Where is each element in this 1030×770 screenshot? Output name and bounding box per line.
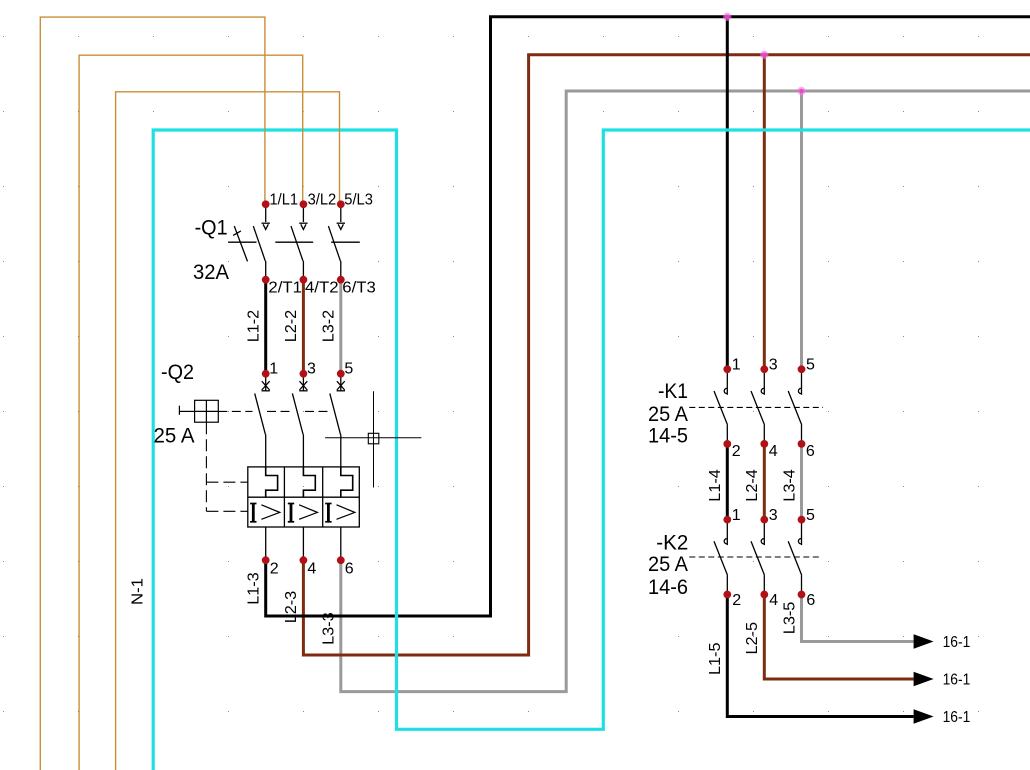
svg-text:5: 5 (806, 357, 815, 374)
svg-text:2: 2 (732, 443, 741, 460)
node K terminal dot row 4 pole 3 (798, 591, 806, 599)
svg-text:25 A: 25 A (648, 552, 689, 576)
svg-text:-K1: -K1 (658, 379, 688, 403)
svg-text:6: 6 (806, 443, 815, 460)
node Q terminal dot row 1 pole 3 (337, 200, 345, 208)
Q2 I> overcurrent trip symbol pole 2 (288, 504, 318, 522)
wire L1-2 black between Q1 and Q2 (264, 280, 267, 374)
contactor K1 pole 3 contact (788, 369, 802, 444)
svg-text:4: 4 (769, 592, 778, 609)
wire L1 black bus top-right to Q2 output loop (266, 17, 1030, 616)
wire N-1 cyan neutral meander (153, 130, 1030, 770)
svg-text:5: 5 (806, 507, 815, 524)
arrow to 16-1 at y=641.5 (914, 634, 934, 649)
Q2 pole 3 output lead (340, 527, 342, 560)
K2 dashed linkage (689, 556, 821, 558)
svg-text:L2-3: L2-3 (283, 591, 300, 624)
wire L2 brown bus top-right to Q2 output loop (303, 55, 1030, 655)
wire L3-4 gray between K1 and K2 (800, 444, 803, 520)
arrow to 16-1 at y=679 (914, 672, 934, 687)
svg-text:-K2: -K2 (656, 530, 688, 554)
Q2 actuator dashed link to poles (218, 410, 328, 412)
svg-text:L3-3: L3-3 (321, 612, 338, 645)
svg-text:2: 2 (270, 561, 279, 578)
node K terminal dot row 1 pole 3 (798, 365, 806, 373)
svg-text:N-1: N-1 (130, 578, 147, 605)
svg-text:L2-2: L2-2 (283, 310, 300, 343)
breaker Q1 latch bar segment 2 (275, 241, 313, 243)
wire L2-5 brown from K2 to arrow 16-1 (764, 595, 913, 680)
svg-text:32A: 32A (193, 260, 230, 284)
node Q terminal dot row 4 pole 3 (337, 556, 345, 564)
wire L1-4 black between K1 and K2 (726, 444, 729, 520)
svg-text:3/L2: 3/L2 (308, 192, 337, 209)
wire brown drop to contactor K1 (763, 55, 766, 370)
wire orange feeder 2 to Q1 pin 3/L2 (79, 55, 303, 770)
contactor K1 pole 1 contact (714, 369, 728, 444)
svg-text:1: 1 (732, 357, 741, 374)
svg-text:14-5: 14-5 (648, 423, 688, 447)
wire L3-2 gray between Q1 and Q2 (339, 280, 342, 374)
node bus T-junction magenta dot 1 (723, 13, 731, 21)
svg-text:2/T1: 2/T1 (268, 280, 302, 297)
switch Q2 pole 2 contact with breaker X mark (292, 374, 307, 467)
switch Q2 pole 1 contact with breaker X mark (255, 374, 270, 467)
node K terminal dot row 3 pole 2 (760, 516, 768, 524)
svg-text:5/L3: 5/L3 (344, 192, 373, 209)
svg-text:2: 2 (732, 592, 741, 609)
node Q terminal dot row 1 pole 1 (262, 200, 270, 208)
node Q terminal dot row 2 pole 2 (300, 276, 308, 284)
svg-text:L3-5: L3-5 (781, 602, 798, 635)
svg-text:L1-5: L1-5 (707, 642, 724, 675)
node Q terminal dot row 4 pole 2 (300, 556, 308, 564)
node Q terminal dot row 2 pole 1 (262, 276, 270, 284)
node K terminal dot row 4 pole 1 (723, 591, 731, 599)
svg-text:-Q2: -Q2 (161, 360, 194, 384)
breaker Q1 pole 3 contact (328, 204, 345, 279)
Q2 pole 1 output lead (265, 527, 267, 560)
svg-text:25 A: 25 A (154, 423, 196, 447)
Q2 thermal element pole 1 (266, 467, 278, 497)
svg-text:L1-2: L1-2 (245, 310, 262, 343)
Q2 overload relay box (248, 467, 359, 527)
breaker Q1 latch bar segment 3 (331, 241, 360, 243)
Q2 actuator dashed link down to overload (206, 422, 247, 511)
breaker Q1 latch bar segment 1 (228, 241, 256, 243)
contactor K2 pole 1 contact (714, 520, 728, 595)
wire black drop to contactor K1 (node at magenta junction) (726, 17, 729, 370)
wire L3-5 gray from K2 to arrow 16-1 (802, 595, 914, 642)
svg-text:4: 4 (769, 443, 778, 460)
breaker Q1 pole 1 contact (253, 204, 270, 279)
node Q terminal dot row 3 pole 3 (337, 370, 345, 378)
Q2 thermal element pole 3 (341, 467, 353, 497)
svg-text:L2-4: L2-4 (744, 469, 761, 502)
node K terminal dot row 1 pole 2 (760, 365, 768, 373)
node K terminal dot row 2 pole 1 (723, 440, 731, 448)
Q2 actuator box (square with cross) (179, 400, 218, 422)
insertion-point crosshair marker (325, 391, 421, 487)
node K terminal dot row 2 pole 3 (798, 440, 806, 448)
Q2 thermal element pole 2 (303, 467, 315, 497)
breaker Q1 actuator linkage diagonal with cross (233, 226, 247, 261)
svg-text:3: 3 (769, 507, 778, 524)
svg-text:16-1: 16-1 (943, 671, 971, 688)
node Q terminal dot row 3 pole 1 (262, 370, 270, 378)
node K terminal dot row 3 pole 3 (798, 516, 806, 524)
svg-text:16-1: 16-1 (943, 634, 971, 651)
svg-text:1: 1 (269, 360, 278, 377)
node K terminal dot row 3 pole 1 (723, 516, 731, 524)
Q2 I> overcurrent trip symbol pole 1 (250, 504, 280, 522)
wire L2-4 brown between K1 and K2 (763, 444, 766, 520)
wire L1-5 black from K2 to arrow 16-1 (727, 595, 913, 717)
svg-text:25 A: 25 A (648, 402, 689, 426)
svg-text:5: 5 (344, 360, 353, 377)
svg-text:4/T2: 4/T2 (305, 280, 339, 297)
wire gray drop to contactor K1 (800, 91, 803, 369)
svg-text:L3-4: L3-4 (781, 469, 798, 502)
svg-text:6/T3: 6/T3 (342, 280, 376, 297)
contactor K2 pole 2 contact (751, 520, 765, 595)
svg-text:3: 3 (307, 360, 316, 377)
svg-text:L1-3: L1-3 (245, 572, 262, 605)
arrow to 16-1 at y=716.5 (914, 709, 934, 724)
node Q terminal dot row 1 pole 2 (300, 200, 308, 208)
node K terminal dot row 1 pole 1 (723, 365, 731, 373)
svg-text:4: 4 (307, 561, 316, 578)
wire orange feeder 3 to Q1 pin 5/L3 (116, 92, 340, 770)
svg-text:L2-5: L2-5 (744, 622, 761, 655)
svg-text:1: 1 (732, 507, 741, 524)
svg-text:6: 6 (806, 592, 815, 609)
svg-text:16-1: 16-1 (943, 709, 971, 726)
node Q terminal dot row 3 pole 2 (300, 370, 308, 378)
breaker Q1 pole 2 contact (291, 204, 308, 279)
switch Q2 pole 3 contact with breaker X mark (330, 374, 345, 467)
contactor K1 pole 2 contact (751, 369, 765, 444)
node K terminal dot row 2 pole 2 (760, 440, 768, 448)
svg-text:L1-4: L1-4 (707, 469, 724, 502)
node bus T-junction magenta dot 3 (797, 87, 805, 95)
node bus T-junction magenta dot 2 (760, 51, 768, 59)
svg-text:14-6: 14-6 (648, 575, 688, 599)
node Q terminal dot row 2 pole 3 (337, 276, 345, 284)
Q2 I> overcurrent trip symbol pole 3 (325, 504, 355, 522)
Q2 pole 2 output lead (302, 527, 304, 560)
wire orange feeder 1 to Q1 pin 1/L1 (40, 17, 265, 770)
wire L3 gray bus top-right to Q2 output loop (341, 91, 1030, 692)
svg-text:3: 3 (769, 357, 778, 374)
node Q terminal dot row 4 pole 1 (262, 556, 270, 564)
K1 dashed linkage (689, 406, 823, 408)
node K terminal dot row 4 pole 2 (760, 591, 768, 599)
svg-text:6: 6 (345, 561, 354, 578)
contactor K2 pole 3 contact (788, 520, 802, 595)
svg-text:-Q1: -Q1 (195, 215, 228, 239)
svg-text:1/L1: 1/L1 (270, 192, 299, 209)
wire L2-2 brown between Q1 and Q2 (302, 280, 305, 374)
svg-text:L3-2: L3-2 (321, 310, 338, 343)
